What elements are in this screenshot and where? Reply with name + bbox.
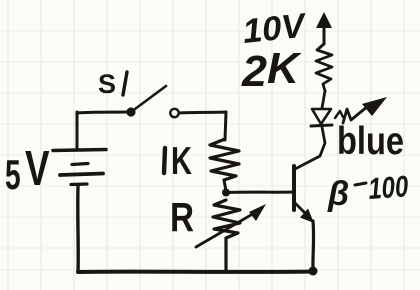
wire down to 1K — [225, 112, 226, 140]
svg-text:S: S — [98, 69, 116, 99]
label 1K — [164, 148, 165, 173]
resistor R (variable) — [213, 200, 240, 238]
svg-text:β: β — [327, 175, 349, 213]
svg-text:R: R — [170, 194, 194, 240]
wire 1K to node — [224, 180, 226, 191]
svg-text:K: K — [267, 44, 302, 93]
svg-text:blue: blue — [337, 120, 404, 163]
LED light arrow stroke — [343, 106, 368, 123]
LED light arrow head — [362, 97, 387, 116]
wire left vertical upper — [76, 112, 79, 150]
switch S1 blade — [131, 86, 166, 112]
svg-text:V: V — [25, 142, 50, 196]
battery 5V plate short bottom — [71, 182, 87, 186]
node emitter-bottom junction — [309, 267, 318, 276]
svg-text:2: 2 — [241, 47, 268, 96]
transistor Q1 emitter — [295, 203, 308, 216]
wire left vertical lower — [76, 186, 80, 272]
wire emitter down — [311, 221, 315, 271]
svg-text:100: 100 — [367, 170, 409, 206]
battery 5V plate long — [60, 174, 103, 176]
svg-text:5: 5 — [5, 151, 21, 198]
battery 5V plate short — [72, 164, 88, 165]
node switch pole — [126, 107, 135, 116]
wire bottom rail — [78, 270, 315, 275]
svg-text:K: K — [171, 140, 192, 183]
switch S1 contact — [170, 109, 178, 117]
resistor 1K — [210, 139, 239, 180]
label equals — [355, 183, 366, 185]
LED light arrow small chevron — [335, 111, 343, 118]
transistor Q1 collector — [295, 127, 325, 169]
resistor 2K — [316, 44, 332, 91]
LED D1 cathode bar — [311, 125, 332, 126]
wire contact to top-right corner — [179, 112, 226, 113]
power 10V arrow — [323, 17, 326, 44]
node junction base — [222, 189, 230, 197]
transistor Q1 base bar — [292, 166, 296, 210]
battery 5V plate long top — [53, 150, 106, 151]
wire top-left horizontal — [77, 112, 131, 113]
wire R to bottom — [224, 238, 227, 271]
LED D1 triangle — [312, 109, 331, 124]
wire LED anode up — [322, 91, 325, 108]
arrow of variable resistor R — [196, 212, 256, 247]
wire base — [226, 191, 293, 195]
